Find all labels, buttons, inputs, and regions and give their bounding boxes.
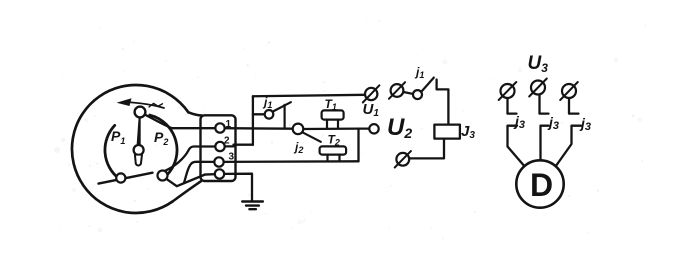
bottom chord wire [99,173,153,184]
terminal phase C [562,84,576,98]
switch J1 arm [273,102,291,111]
terminal U2 top [391,84,404,97]
arrow hatch mark [149,103,163,107]
svg-text:T2: T2 [328,133,340,148]
contact P2 circle [158,171,168,181]
J1 fixed contact tick [284,105,286,128]
right vertical wire to node [359,129,370,162]
arrowhead [117,98,132,106]
wire needle to terminal 1 [145,115,215,129]
terminal U1 [365,88,377,100]
svg-text:j3: j3 [513,113,525,131]
svg-text:j1: j1 [262,95,272,110]
svg-text:D: D [530,167,553,203]
T1 legs [327,120,338,128]
svg-text:P2: P2 [154,129,168,147]
terminal 2 [215,142,224,151]
svg-text:P1: P1 [111,128,125,146]
contact P1 circle [116,173,125,182]
wire stub to J1 [253,113,265,115]
svg-text:J3: J3 [461,123,475,141]
svg-text:j2: j2 [293,140,303,155]
contact J3 phase B [540,95,549,114]
contact J3 phase C [569,98,579,113]
top wire to U1 [253,95,365,97]
wire stub terminal 4 left [205,173,215,176]
gauge upper horn edge [188,112,202,115]
terminal 3 [214,157,223,166]
wire J2 to right [303,127,358,130]
relay switch J1b arm [421,78,433,92]
wire terminal 1 to J2 row [225,127,293,130]
gauge P outer case circle [72,85,188,213]
wire to terminal 3 [184,162,214,183]
needle top contact circle [135,107,146,118]
svg-text:U3: U3 [528,53,549,75]
switch J2 arm [302,132,320,142]
node circle [369,124,378,133]
terminal U2 bottom [396,153,409,166]
wire U2 to switch [403,92,413,94]
wire terminal 4 to ground [224,174,252,201]
bus vertical wire [252,96,254,144]
direction arrow over needle [131,102,164,108]
bottom wire terminal 3 to right [224,160,359,163]
svg-text:T1: T1 [325,97,337,112]
T2 legs [328,155,340,162]
needle pivot circle [134,145,144,155]
terminal phase B [531,81,545,95]
wire terminal 2 to bus [225,145,253,147]
relay switch J1b pivot [413,90,422,99]
svg-text:U1: U1 [363,101,380,119]
switch J1 pivot [265,110,274,119]
wire contact P2 to terminal 2 [165,147,215,171]
switch J2 pivot [293,124,304,135]
wire coil to U2 bottom [409,139,444,159]
gauge lower horn edge [173,181,201,201]
needle pointer [137,118,141,146]
svg-text:2: 2 [224,136,230,147]
svg-text:j1: j1 [414,65,424,80]
motor D [516,160,563,207]
contact J3 phase A [508,98,517,113]
terminal box [201,115,236,181]
terminal 4 [215,169,224,178]
scale arc tail lower-right [167,173,171,176]
relay coil J3 [434,125,460,139]
wire chord to terminal 4 [166,175,205,187]
gauge scale arc right [150,115,177,175]
ground [242,202,263,210]
gauge scale arc left [105,125,119,178]
needle tail [135,155,142,166]
svg-text:U2: U2 [387,114,412,141]
terminal 1 [215,123,224,132]
svg-text:j3: j3 [579,115,591,133]
svg-text:j3: j3 [547,114,559,132]
wire switch to coil [437,80,449,125]
contact T2 bar [320,146,347,154]
contact T1 bar [322,110,344,119]
terminal phase A [501,84,515,98]
